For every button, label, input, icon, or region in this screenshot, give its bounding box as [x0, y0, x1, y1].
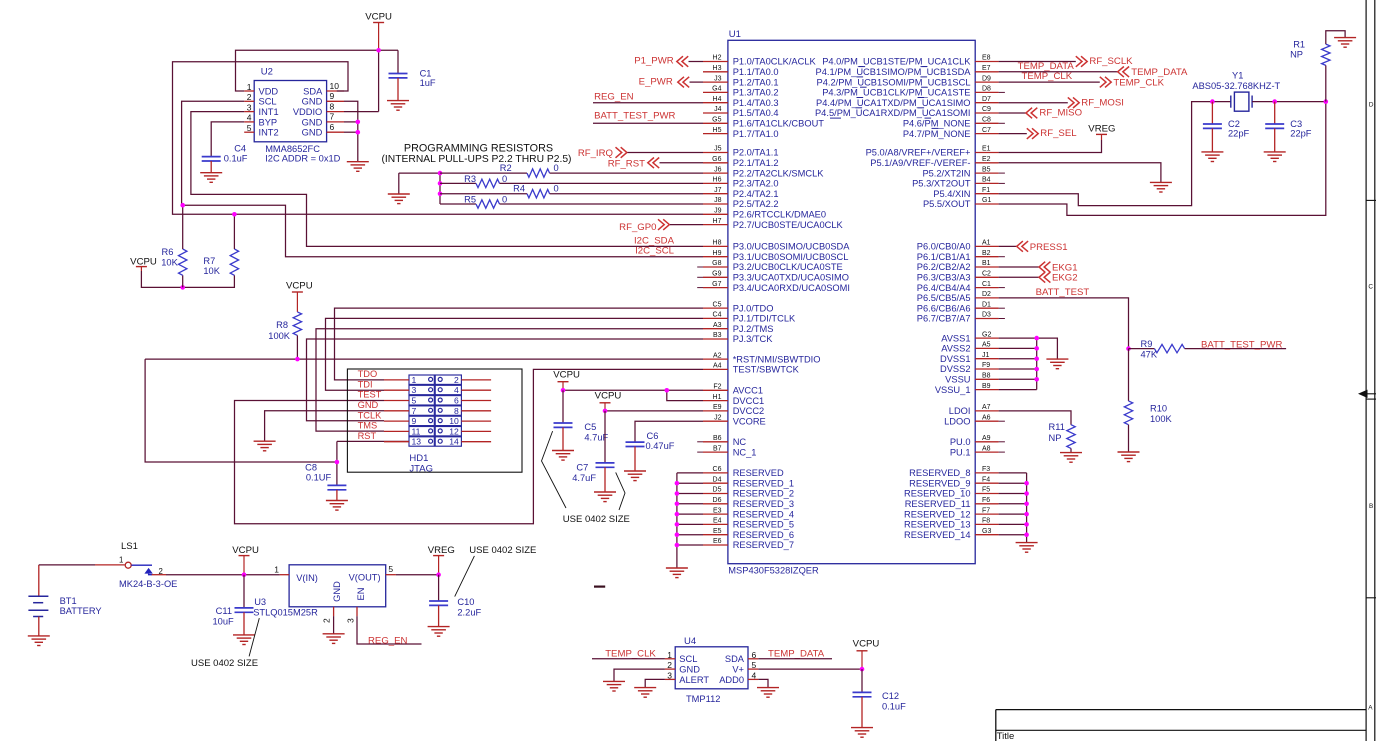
svg-text:P1.0/TA0CLK/ACLK: P1.0/TA0CLK/ACLK — [733, 57, 817, 67]
wire right RESERVED bus to ground — [999, 473, 1027, 543]
svg-text:B3: B3 — [713, 332, 722, 339]
text note USE 0402 SIZE for C10 with leader — [455, 545, 537, 597]
wire net GND from HD1 pin7 to ground — [265, 411, 384, 442]
svg-text:TDO: TDO — [358, 369, 378, 379]
wire net TEST from HD1 pin5 looping below to U1 A4 — [235, 369, 704, 523]
junction dot C8 tap on RST line — [335, 460, 340, 465]
wire ground bus to junction column x=440 — [399, 173, 440, 204]
ground for U4 GND — [603, 681, 625, 691]
svg-text:D5: D5 — [713, 487, 722, 494]
resistor R7 10K pullup on SDA — [203, 214, 238, 276]
svg-text:B7: B7 — [713, 445, 722, 452]
svg-text:U2: U2 — [261, 67, 273, 78]
svg-text:C6: C6 — [647, 431, 659, 441]
svg-text:3: 3 — [346, 618, 356, 623]
accelerometer U2 MMA8652FC body — [244, 67, 344, 164]
svg-text:J2: J2 — [714, 414, 722, 421]
svg-text:PU.0: PU.0 — [950, 437, 971, 447]
svg-text:REG_EN: REG_EN — [594, 91, 634, 102]
svg-text:100K: 100K — [268, 331, 291, 341]
svg-text:10: 10 — [449, 416, 459, 426]
svg-text:P1.6/TA1CLK/CBOUT: P1.6/TA1CLK/CBOUT — [733, 119, 825, 129]
svg-text:E5: E5 — [713, 528, 722, 535]
svg-text:MK24-B-3-OE: MK24-B-3-OE — [119, 579, 177, 589]
regulator U3 STLQ015M25R body — [253, 564, 396, 623]
junction dots on U2 ground bus — [356, 120, 361, 135]
svg-text:0: 0 — [554, 184, 559, 194]
svg-text:P6.6/CB6/A6: P6.6/CB6/A6 — [917, 303, 971, 313]
svg-text:A8: A8 — [982, 445, 991, 452]
svg-text:TCLK: TCLK — [358, 410, 383, 420]
power symbol VREG on pin E1 — [1088, 124, 1115, 140]
svg-text:RESERVED_6: RESERVED_6 — [733, 530, 794, 540]
resistor R3 0 ohm to pin H6 — [440, 174, 703, 188]
svg-text:RESERVED_11: RESERVED_11 — [905, 499, 971, 509]
svg-text:14: 14 — [449, 437, 459, 447]
wire U4 V+ to VCPU rail — [758, 668, 862, 670]
svg-text:C11: C11 — [216, 606, 232, 616]
svg-text:P4.2/PM_UCB1SOMI/PM_UCB1SCL: P4.2/PM_UCB1SOMI/PM_UCB1SCL — [817, 77, 971, 87]
svg-text:TEMP_CLK: TEMP_CLK — [1113, 78, 1164, 89]
net label REG_EN wire into pin H4 — [593, 91, 703, 102]
off-page connector RF_IRQ out of pin J5 — [578, 147, 703, 159]
svg-text:GND: GND — [302, 117, 323, 127]
svg-text:PJ.3/TCK: PJ.3/TCK — [733, 334, 774, 344]
svg-text:47K: 47K — [1141, 350, 1158, 360]
junction dot VCPU at C1 branch — [376, 48, 381, 53]
svg-text:AVSS1: AVSS1 — [941, 333, 970, 343]
svg-text:SDA: SDA — [303, 86, 323, 96]
battery BT1 — [28, 565, 101, 636]
svg-text:TMP112: TMP112 — [686, 694, 720, 704]
svg-text:I2C ADDR = 0x1D: I2C ADDR = 0x1D — [265, 154, 340, 164]
svg-text:(INTERNAL PULL-UPS P2.2 THRU P: (INTERNAL PULL-UPS P2.2 THRU P2.5) — [382, 154, 572, 165]
svg-text:H4: H4 — [713, 96, 722, 103]
U1 left pin stubs with pin numbers and names — [703, 55, 850, 551]
power symbol VCPU above U2 — [365, 12, 392, 51]
svg-text:P6.4/CB4/A4: P6.4/CB4/A4 — [917, 283, 971, 293]
wire net TDI from HD1 pin3 to U1 C4 — [326, 318, 704, 390]
ground right RESERVED bus — [1016, 543, 1038, 553]
junction dots on programming resistor bus — [438, 171, 443, 196]
svg-text:B5: B5 — [982, 166, 991, 173]
power symbol VCPU for pullup resistors R6 R7 — [130, 257, 157, 271]
svg-text:VCPU: VCPU — [232, 545, 259, 556]
svg-text:USE 0402 SIZE: USE 0402 SIZE — [191, 658, 258, 669]
svg-text:F6: F6 — [982, 497, 990, 504]
svg-text:ABS05-32.768KHZ-T: ABS05-32.768KHZ-T — [1192, 81, 1280, 91]
svg-text:P5.1/A9/VREF-/VEREF-: P5.1/A9/VREF-/VEREF- — [870, 158, 970, 168]
svg-text:6: 6 — [330, 122, 335, 132]
svg-text:RF_SEL: RF_SEL — [1040, 128, 1077, 139]
svg-text:P2.4/TA2.1: P2.4/TA2.1 — [733, 189, 779, 199]
junction dot R8 on RST line — [295, 357, 300, 362]
svg-text:P5.5/XOUT: P5.5/XOUT — [923, 199, 971, 209]
svg-text:P1.7/TA1.0: P1.7/TA1.0 — [733, 129, 779, 139]
svg-text:6: 6 — [752, 650, 757, 660]
svg-text:B6: B6 — [713, 435, 722, 442]
svg-text:P3.1/UCB0SOMI/UCB0SCL: P3.1/UCB0SOMI/UCB0SCL — [733, 252, 849, 262]
svg-text:2.2uF: 2.2uF — [457, 608, 481, 618]
svg-text:C4: C4 — [713, 312, 722, 319]
svg-text:P4.7/PM_NONE: P4.7/PM_NONE — [903, 129, 971, 139]
svg-text:C4: C4 — [234, 144, 246, 154]
svg-text:RESERVED_12: RESERVED_12 — [904, 509, 971, 519]
svg-text:P4.4/PM_UCA1TXD/PM_UCA1SIMO: P4.4/PM_UCA1TXD/PM_UCA1SIMO — [816, 98, 970, 108]
svg-text:C: C — [1368, 284, 1373, 291]
svg-text:USE 0402 SIZE: USE 0402 SIZE — [469, 545, 536, 556]
svg-text:J8: J8 — [714, 197, 722, 204]
svg-text:5: 5 — [412, 396, 417, 406]
svg-text:F1: F1 — [982, 187, 990, 194]
svg-text:*RST/NMI/SBWTDIO: *RST/NMI/SBWTDIO — [733, 354, 821, 364]
svg-text:0: 0 — [554, 163, 559, 173]
wire VREG to pin E1 — [999, 140, 1102, 153]
svg-text:RESERVED_2: RESERVED_2 — [733, 489, 794, 499]
svg-text:C9: C9 — [982, 106, 991, 113]
svg-text:C7: C7 — [982, 127, 991, 134]
junction dot crystal left node — [1210, 99, 1215, 104]
svg-text:E1: E1 — [982, 146, 991, 153]
svg-text:F8: F8 — [982, 518, 990, 525]
svg-text:PROGRAMMING RESISTORS: PROGRAMMING RESISTORS — [404, 143, 553, 155]
svg-text:GND: GND — [679, 665, 700, 675]
power symbol VCPU for DVCC2 — [595, 391, 622, 411]
svg-text:P4.6/PM_NONE: P4.6/PM_NONE — [903, 119, 971, 129]
capacitor C4 0.1uF on U2 BYP — [200, 122, 248, 182]
svg-text:NP: NP — [1049, 433, 1062, 443]
svg-text:2: 2 — [322, 618, 332, 623]
svg-text:4: 4 — [454, 385, 459, 395]
svg-text:G4: G4 — [712, 86, 721, 93]
svg-text:AVSS2: AVSS2 — [941, 344, 970, 354]
svg-text:LDOI: LDOI — [949, 406, 971, 416]
svg-text:1uF: 1uF — [420, 78, 436, 88]
wire net TDO from HD1 pin1 to U1 C5 — [335, 308, 704, 380]
svg-text:P2.6/RTCCLK/DMAE0: P2.6/RTCCLK/DMAE0 — [733, 210, 826, 220]
svg-text:REG_EN: REG_EN — [368, 636, 408, 647]
svg-text:R3: R3 — [464, 174, 476, 184]
power symbol VCPU for AVCC1 — [553, 369, 580, 390]
svg-text:1: 1 — [247, 82, 252, 92]
svg-text:22pF: 22pF — [1228, 128, 1250, 138]
svg-text:VSSU_1: VSSU_1 — [935, 385, 971, 395]
svg-text:PJ.2/TMS: PJ.2/TMS — [733, 324, 774, 334]
svg-text:J9: J9 — [714, 208, 722, 215]
svg-text:RESERVED_1: RESERVED_1 — [733, 478, 794, 488]
svg-text:VREG: VREG — [1088, 124, 1115, 135]
svg-text:P1_PWR: P1_PWR — [634, 56, 674, 67]
svg-text:F7: F7 — [982, 507, 990, 514]
svg-text:VCPU: VCPU — [365, 12, 392, 23]
svg-text:H9: H9 — [713, 250, 722, 257]
wire net TMS from HD1 pin11 to U1 A3 — [316, 329, 703, 431]
svg-text:P4.1/PM_UCB1SIMO/PM_UCB1SDA: P4.1/PM_UCB1SIMO/PM_UCB1SDA — [816, 67, 972, 77]
svg-text:E4: E4 — [713, 518, 722, 525]
net label TEMP_CLK on pin D9 wire with off-page connector — [999, 71, 1165, 88]
svg-text:BATT_TEST: BATT_TEST — [1036, 287, 1090, 298]
svg-text:R10: R10 — [1150, 404, 1167, 414]
svg-text:RF_MOSI: RF_MOSI — [1081, 97, 1124, 108]
svg-text:1: 1 — [412, 375, 417, 385]
svg-text:22pF: 22pF — [1290, 128, 1312, 138]
svg-text:VCORE: VCORE — [733, 416, 766, 426]
wire net XIN from pin F1 to crystal left node — [999, 102, 1231, 206]
svg-text:13: 13 — [412, 437, 422, 447]
svg-text:4.7uF: 4.7uF — [572, 473, 596, 483]
svg-text:P1.1/TA0.0: P1.1/TA0.0 — [733, 67, 779, 77]
svg-text:C8: C8 — [305, 462, 317, 472]
svg-text:A7: A7 — [982, 404, 991, 411]
U1 right pin stubs with pin numbers and names — [815, 55, 999, 540]
svg-text:GND: GND — [302, 128, 323, 138]
net label I2C_SCL — [635, 246, 675, 257]
svg-text:B9: B9 — [982, 383, 991, 390]
svg-text:G3: G3 — [982, 528, 991, 535]
svg-text:STLQ015M25R: STLQ015M25R — [253, 607, 318, 617]
svg-text:NP: NP — [1290, 49, 1303, 59]
net label BATT_TEST wire from pin D2 to divider — [999, 287, 1129, 349]
off-page connector PRESS1 into pin A1 — [999, 241, 1068, 253]
svg-text:MMA8652FC: MMA8652FC — [265, 144, 320, 154]
svg-text:RESERVED_5: RESERVED_5 — [733, 520, 794, 530]
svg-text:P2.7/UCB0STE/UCA0CLK: P2.7/UCB0STE/UCA0CLK — [733, 220, 844, 230]
ground left RESERVED bus — [666, 568, 688, 578]
svg-text:2: 2 — [454, 375, 459, 385]
svg-text:P2.2/TA2CLK/SMCLK: P2.2/TA2CLK/SMCLK — [733, 168, 825, 178]
svg-text:P6.7/CB7/A7: P6.7/CB7/A7 — [917, 314, 971, 324]
svg-text:E3: E3 — [713, 507, 722, 514]
svg-text:SDA: SDA — [725, 654, 745, 664]
switch LS1 MK24-B-3-OE — [39, 541, 280, 589]
svg-text:I2C_SCL: I2C_SCL — [635, 246, 675, 257]
wire U4 GND pin to ground — [614, 669, 665, 681]
junction dots AVSS bus — [1034, 336, 1039, 382]
svg-text:P1.4/TA0.3: P1.4/TA0.3 — [733, 98, 779, 108]
svg-text:10: 10 — [330, 81, 340, 91]
wire left RESERVED bus to ground — [677, 473, 703, 568]
svg-text:A3: A3 — [713, 322, 722, 329]
wire net GND U2 pins 9 7 6 to ground — [344, 101, 358, 161]
capacitor C1 1uF bypass — [387, 50, 436, 110]
svg-text:VREG: VREG — [428, 545, 455, 556]
junction dot VCPU AVCC rail — [561, 388, 566, 393]
svg-text:5: 5 — [388, 564, 393, 574]
svg-text:0.47uF: 0.47uF — [646, 441, 675, 451]
net label TEMP_CLK wire into U4 SCL — [592, 649, 665, 660]
svg-text:VCPU: VCPU — [595, 391, 622, 402]
svg-text:C5: C5 — [713, 301, 722, 308]
svg-text:VDD: VDD — [259, 86, 279, 96]
capacitor C7 4.7uF — [572, 411, 616, 502]
svg-text:C6: C6 — [713, 466, 722, 473]
wire U4 ADD0 to ground — [758, 679, 768, 687]
svg-text:D8: D8 — [982, 86, 991, 93]
svg-text:9: 9 — [412, 416, 417, 426]
svg-text:SCL: SCL — [259, 97, 277, 107]
svg-text:8: 8 — [454, 406, 459, 416]
svg-text:0: 0 — [502, 194, 507, 204]
svg-text:P5.0/A8/VREF+/VEREF+: P5.0/A8/VREF+/VEREF+ — [866, 148, 971, 158]
svg-text:G6: G6 — [712, 156, 721, 163]
ground for JTAG GND pin — [254, 441, 276, 451]
svg-text:P6.3/CB3/A3: P6.3/CB3/A3 — [917, 273, 971, 283]
capacitor C12 0.1uF — [851, 669, 906, 737]
svg-text:P1.5/TA0.4: P1.5/TA0.4 — [733, 108, 779, 118]
svg-text:C10: C10 — [457, 597, 474, 607]
svg-text:P5.4/XIN: P5.4/XIN — [933, 189, 970, 199]
svg-text:LDOO: LDOO — [944, 416, 970, 426]
svg-text:E7: E7 — [982, 65, 991, 72]
svg-text:J1: J1 — [982, 352, 990, 359]
capacitor C10 2.2uF — [428, 575, 482, 637]
svg-text:J7: J7 — [714, 187, 722, 194]
svg-text:NC_1: NC_1 — [733, 447, 757, 457]
svg-text:Y1: Y1 — [1232, 71, 1243, 81]
svg-text:PJ.0/TDO: PJ.0/TDO — [733, 303, 774, 313]
off-page connector E_PWR into pin J3 — [639, 77, 703, 88]
U1 unconnected-pin short wire nubs — [697, 92, 1005, 452]
capacitor C2 22pF — [1201, 102, 1249, 162]
junction dots right RESERVED bus — [1024, 481, 1029, 537]
svg-text:H3: H3 — [713, 65, 722, 72]
title block — [996, 710, 1366, 741]
svg-text:RF_SCLK: RF_SCLK — [1089, 56, 1133, 67]
svg-text:SCL: SCL — [679, 654, 697, 664]
svg-text:J3: J3 — [714, 75, 722, 82]
ground for U4 ADD0 — [757, 688, 779, 698]
svg-text:3: 3 — [412, 385, 417, 395]
svg-text:J4: J4 — [714, 106, 722, 113]
svg-text:1: 1 — [119, 555, 123, 564]
resistor R11 NP on LDOI — [999, 411, 1076, 453]
wire U3 VOUT to VREG rail — [396, 574, 439, 576]
svg-text:E_PWR: E_PWR — [639, 77, 673, 88]
svg-text:R6: R6 — [162, 247, 174, 257]
svg-text:PRESS1: PRESS1 — [1030, 242, 1068, 253]
off-page connector RF_MISO into pin C9 — [999, 108, 1082, 119]
svg-text:1: 1 — [667, 650, 672, 660]
junction dot battery divider — [1126, 346, 1131, 351]
svg-text:INT1: INT1 — [259, 107, 279, 117]
capacitor C11 10uF — [212, 575, 255, 645]
svg-text:LS1: LS1 — [121, 541, 138, 552]
svg-text:P4.0/PM_UCB1STE/PM_UCA1CLK: P4.0/PM_UCB1STE/PM_UCA1CLK — [822, 57, 971, 67]
svg-text:DVCC1: DVCC1 — [733, 396, 765, 406]
capacitor C3 22pF — [1264, 102, 1312, 162]
off-page connector RF_SEL from pin C7 — [999, 128, 1078, 139]
svg-text:BATT_TEST_PWR: BATT_TEST_PWR — [1201, 339, 1282, 350]
svg-text:VCPU: VCPU — [553, 369, 580, 380]
off-page connector RF_SCLK from pin E8 — [999, 56, 1134, 67]
svg-text:P2.1/TA1.2: P2.1/TA1.2 — [733, 158, 779, 168]
svg-text:F9: F9 — [982, 362, 990, 369]
svg-text:C7: C7 — [576, 462, 588, 472]
svg-text:VDDIO: VDDIO — [293, 107, 322, 117]
svg-text:0.1uF: 0.1uF — [882, 702, 906, 712]
ground below U2 — [347, 162, 369, 172]
off-page connector EKG1 into pin B1 — [999, 262, 1078, 274]
ground for programming resistors — [388, 173, 410, 204]
svg-text:RESERVED_14: RESERVED_14 — [904, 530, 971, 540]
ground below U3 — [323, 634, 345, 644]
revision arrow marker on border — [1358, 390, 1376, 398]
svg-text:RF_RST: RF_RST — [608, 158, 645, 169]
net label TEMP_DATA wire from U4 SDA — [758, 649, 832, 660]
svg-text:RESERVED_8: RESERVED_8 — [909, 468, 970, 478]
svg-text:C12: C12 — [882, 691, 899, 701]
svg-text:10K: 10K — [161, 257, 178, 267]
svg-text:TEST/SBWTCK: TEST/SBWTCK — [733, 365, 800, 375]
resistor R9 47K to BATT_TEST_PWR — [1129, 339, 1287, 360]
capacitor C5 4.7uF — [552, 390, 608, 460]
svg-text:H8: H8 — [713, 240, 722, 247]
wire net TCLK from HD1 pin9 to U1 B3 — [307, 339, 704, 421]
svg-text:GND: GND — [302, 97, 323, 107]
ground for U4 ALERT — [634, 688, 656, 698]
svg-text:BYP: BYP — [259, 117, 278, 127]
svg-text:G9: G9 — [712, 271, 721, 278]
text note PROGRAMMING RESISTORS — [382, 143, 572, 166]
svg-text:D6: D6 — [713, 497, 722, 504]
svg-text:R9: R9 — [1141, 339, 1153, 349]
resistor R1 NP — [1290, 31, 1345, 102]
svg-text:RF_GP0: RF_GP0 — [619, 222, 656, 233]
svg-text:H1: H1 — [713, 394, 722, 401]
wire net XOUT from pin G1 below to crystal right node — [999, 102, 1326, 216]
svg-text:MSP430F5328IZQER: MSP430F5328IZQER — [728, 565, 819, 575]
sheet border right edge lines — [1366, 0, 1375, 741]
JTAG outline box annotation — [347, 369, 522, 472]
svg-text:G1: G1 — [982, 197, 991, 204]
svg-text:TEMP_DATA: TEMP_DATA — [768, 649, 825, 660]
svg-text:RESERVED: RESERVED — [733, 468, 784, 478]
net label TEMP_DATA on pin E7 wire with off-page connector — [999, 61, 1188, 78]
svg-text:Title: Title — [997, 731, 1015, 741]
resistor R2 0 ohm to pin J6 — [440, 163, 703, 177]
junction dots left RESERVED bus — [675, 481, 680, 547]
svg-text:P6.0/CB0/A0: P6.0/CB0/A0 — [917, 242, 971, 252]
svg-text:P3.0/UCB0SIMO/UCB0SDA: P3.0/UCB0SIMO/UCB0SDA — [733, 242, 851, 252]
svg-text:C5: C5 — [584, 422, 596, 432]
svg-text:C8: C8 — [982, 117, 991, 124]
svg-text:R1: R1 — [1293, 39, 1305, 49]
svg-text:GND: GND — [358, 400, 379, 410]
svg-text:C1: C1 — [982, 281, 991, 288]
svg-text:A4: A4 — [713, 363, 722, 370]
svg-text:D: D — [1369, 102, 1374, 109]
wire net INT1 from U2 pin3 to U1 H8 I2C_SDA — [191, 112, 703, 247]
svg-text:E6: E6 — [713, 538, 722, 545]
svg-text:P1.2/TA0.1: P1.2/TA0.1 — [733, 77, 779, 87]
svg-text:0.1uF: 0.1uF — [224, 153, 248, 163]
svg-text:EN: EN — [356, 588, 366, 601]
text note USE 0402 SIZE for C11 with leader — [191, 618, 259, 669]
junction dot AVCC branch — [665, 388, 670, 393]
svg-text:BATTERY: BATTERY — [60, 606, 102, 616]
wire net VCPU to AVCC1 F2 and DVCC1 H1 — [563, 390, 703, 400]
svg-text:TMS: TMS — [358, 421, 378, 431]
svg-text:8: 8 — [330, 101, 335, 111]
junction dot DVCC2 rail — [603, 409, 608, 414]
wire U3 GND pin to ground — [333, 616, 335, 634]
temperature sensor U4 TMP112 body — [665, 636, 758, 704]
svg-text:R8: R8 — [276, 320, 288, 330]
text note USE 0402 SIZE with leaders for C5 C7 — [542, 431, 630, 525]
capacitor C6 0.47uF on VCORE — [624, 421, 703, 480]
svg-text:RESERVED_4: RESERVED_4 — [733, 509, 794, 519]
junction dot U4 VCPU C12 tap — [860, 667, 865, 672]
